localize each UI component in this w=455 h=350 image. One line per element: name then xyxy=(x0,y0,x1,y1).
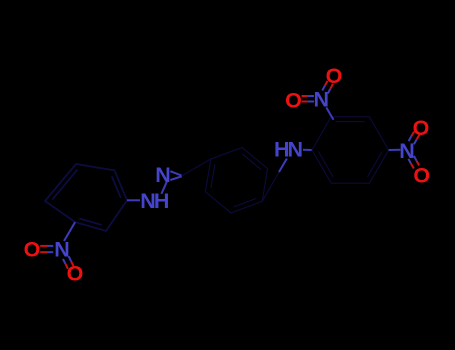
central ring inner double bond c xyxy=(211,164,215,188)
svg-text:O: O xyxy=(67,262,84,286)
N3=O4 double bond blue halves xyxy=(322,86,330,94)
bond right ring C2'' to nitro N3 (blue) xyxy=(326,108,333,120)
O1=N1 double bond blue halves xyxy=(47,246,53,252)
right benzene ring xyxy=(312,117,389,183)
central ring inner double bond b xyxy=(234,198,257,207)
central ring inner double bond a xyxy=(242,154,261,170)
N4=O6 double bond blue halves xyxy=(408,156,416,164)
bond CH= to central ring C1' xyxy=(182,159,211,176)
N3=O4 double bond red halves xyxy=(325,81,333,89)
O3=N3 double bond blue halves xyxy=(308,96,314,102)
right ring inner double bond b xyxy=(368,152,383,177)
N1=O2 double bond red halves xyxy=(66,261,74,269)
N1=O2 double bond blue halves xyxy=(63,256,71,264)
svg-text:N: N xyxy=(314,88,330,112)
central benzene ring xyxy=(205,148,267,213)
svg-text:O: O xyxy=(326,64,343,88)
right ring inner double bond a xyxy=(336,121,365,123)
svg-text:O: O xyxy=(24,238,41,262)
bond C1 to hydrazone NH (blue) xyxy=(127,199,140,201)
bond HN to right ring C1'' (blue) xyxy=(303,149,312,151)
svg-text:O: O xyxy=(285,89,302,113)
left benzene ring C1-C6 xyxy=(45,164,127,231)
N4=O6 double bond red halves xyxy=(411,161,419,169)
bond CH2 to HN (blue) xyxy=(279,159,287,173)
svg-text:O: O xyxy=(413,164,430,188)
N4=O5 double bond blue halves xyxy=(409,136,417,144)
bond central ring C4' to CH2 xyxy=(262,172,279,201)
left ring inner double bond C4=C5 xyxy=(112,176,121,198)
right ring inner double bond c xyxy=(318,152,333,177)
svg-text:HN: HN xyxy=(274,137,303,161)
svg-text:N: N xyxy=(54,238,70,262)
O3=N3 double bond red halves xyxy=(302,96,308,102)
svg-text:NH: NH xyxy=(140,189,169,213)
svg-text:O: O xyxy=(413,116,430,140)
left ring inner double bond C2=C3 xyxy=(79,219,101,225)
bond right ring C4'' to nitro N4 (blue) xyxy=(389,149,401,151)
N4=O5 double bond red halves xyxy=(411,132,419,140)
N-N hydrazone bond xyxy=(161,182,167,194)
svg-text:N: N xyxy=(399,139,415,163)
svg-text:N: N xyxy=(155,163,171,187)
bond C3 to nitro N1 (blue) xyxy=(64,222,75,241)
C=N double bond (wedge) xyxy=(170,171,182,180)
left ring inner double bond C6=C1 xyxy=(52,170,77,200)
O1=N1 double bond red halves xyxy=(40,246,47,252)
